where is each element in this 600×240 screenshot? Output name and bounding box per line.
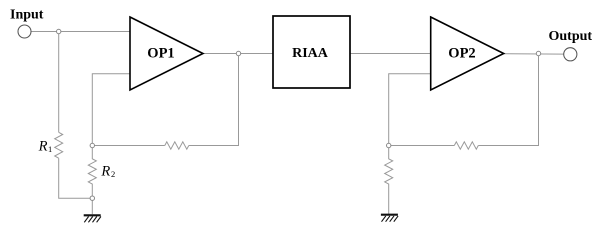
svg-text:RIAA: RIAA [292,46,329,61]
svg-text:Input: Input [10,8,44,23]
svg-text:R: R [100,163,110,179]
svg-text:1: 1 [48,144,52,154]
svg-text:OP2: OP2 [448,46,475,62]
svg-text:R: R [38,139,48,155]
svg-text:OP1: OP1 [147,46,174,62]
svg-text:2: 2 [111,169,115,179]
svg-text:Output: Output [549,29,593,44]
